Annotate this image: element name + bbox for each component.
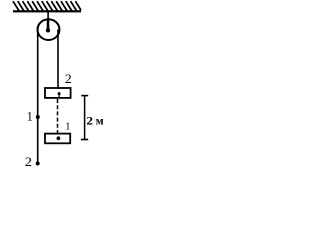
svg-text:2: 2 <box>65 72 72 86</box>
svg-text:2: 2 <box>25 155 32 169</box>
svg-text:1: 1 <box>65 121 70 133</box>
svg-text:1: 1 <box>27 109 33 123</box>
svg-text:м: м <box>96 116 104 128</box>
svg-text:2: 2 <box>86 116 93 128</box>
